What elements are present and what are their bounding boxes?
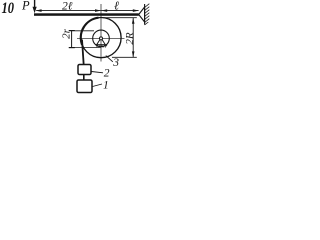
dimension 2R line — [132, 18, 135, 58]
axle pin circle — [100, 37, 103, 40]
drum outer circle — [81, 17, 121, 57]
rope wrap arc on drum — [81, 18, 99, 45]
svg-text:1: 1 — [103, 79, 109, 91]
force P arrow — [33, 0, 37, 13]
dimension line 2l — [36, 9, 101, 12]
svg-text:2: 2 — [104, 68, 110, 80]
beam (lever bar) — [34, 13, 139, 16]
svg-text:2R: 2R — [124, 32, 136, 45]
svg-text:3: 3 — [112, 57, 119, 69]
svg-text:10: 10 — [2, 0, 15, 17]
leader line for 3 — [106, 56, 113, 62]
svg-text:2ℓ: 2ℓ — [62, 1, 73, 13]
leader line for 2 — [92, 72, 104, 73]
wall pin support triangle — [139, 7, 145, 22]
drum inner circle — [93, 30, 110, 47]
svg-text:P: P — [21, 0, 30, 12]
rope upper segment — [82, 40, 84, 65]
axle support base line — [95, 44, 107, 46]
axle support triangle — [97, 40, 106, 45]
dimension 2r extension lines — [69, 30, 94, 32]
wall hatching — [145, 4, 150, 25]
svg-text:ℓ: ℓ — [114, 0, 119, 13]
drum vertical centerline — [100, 4, 102, 62]
axle support hatching — [96, 45, 107, 48]
wall base line — [144, 4, 146, 25]
dimension 2R extension lines — [103, 17, 137, 19]
svg-text:2r: 2r — [61, 28, 73, 39]
rope middle segment — [83, 75, 85, 81]
dimension line l — [101, 9, 139, 12]
drum horizontal centerline — [77, 37, 125, 39]
weight 2 box — [78, 65, 91, 75]
weight 1 box — [77, 80, 92, 93]
dimension 2r line with end ticks — [69, 30, 75, 48]
leader line for 1 — [93, 84, 103, 87]
